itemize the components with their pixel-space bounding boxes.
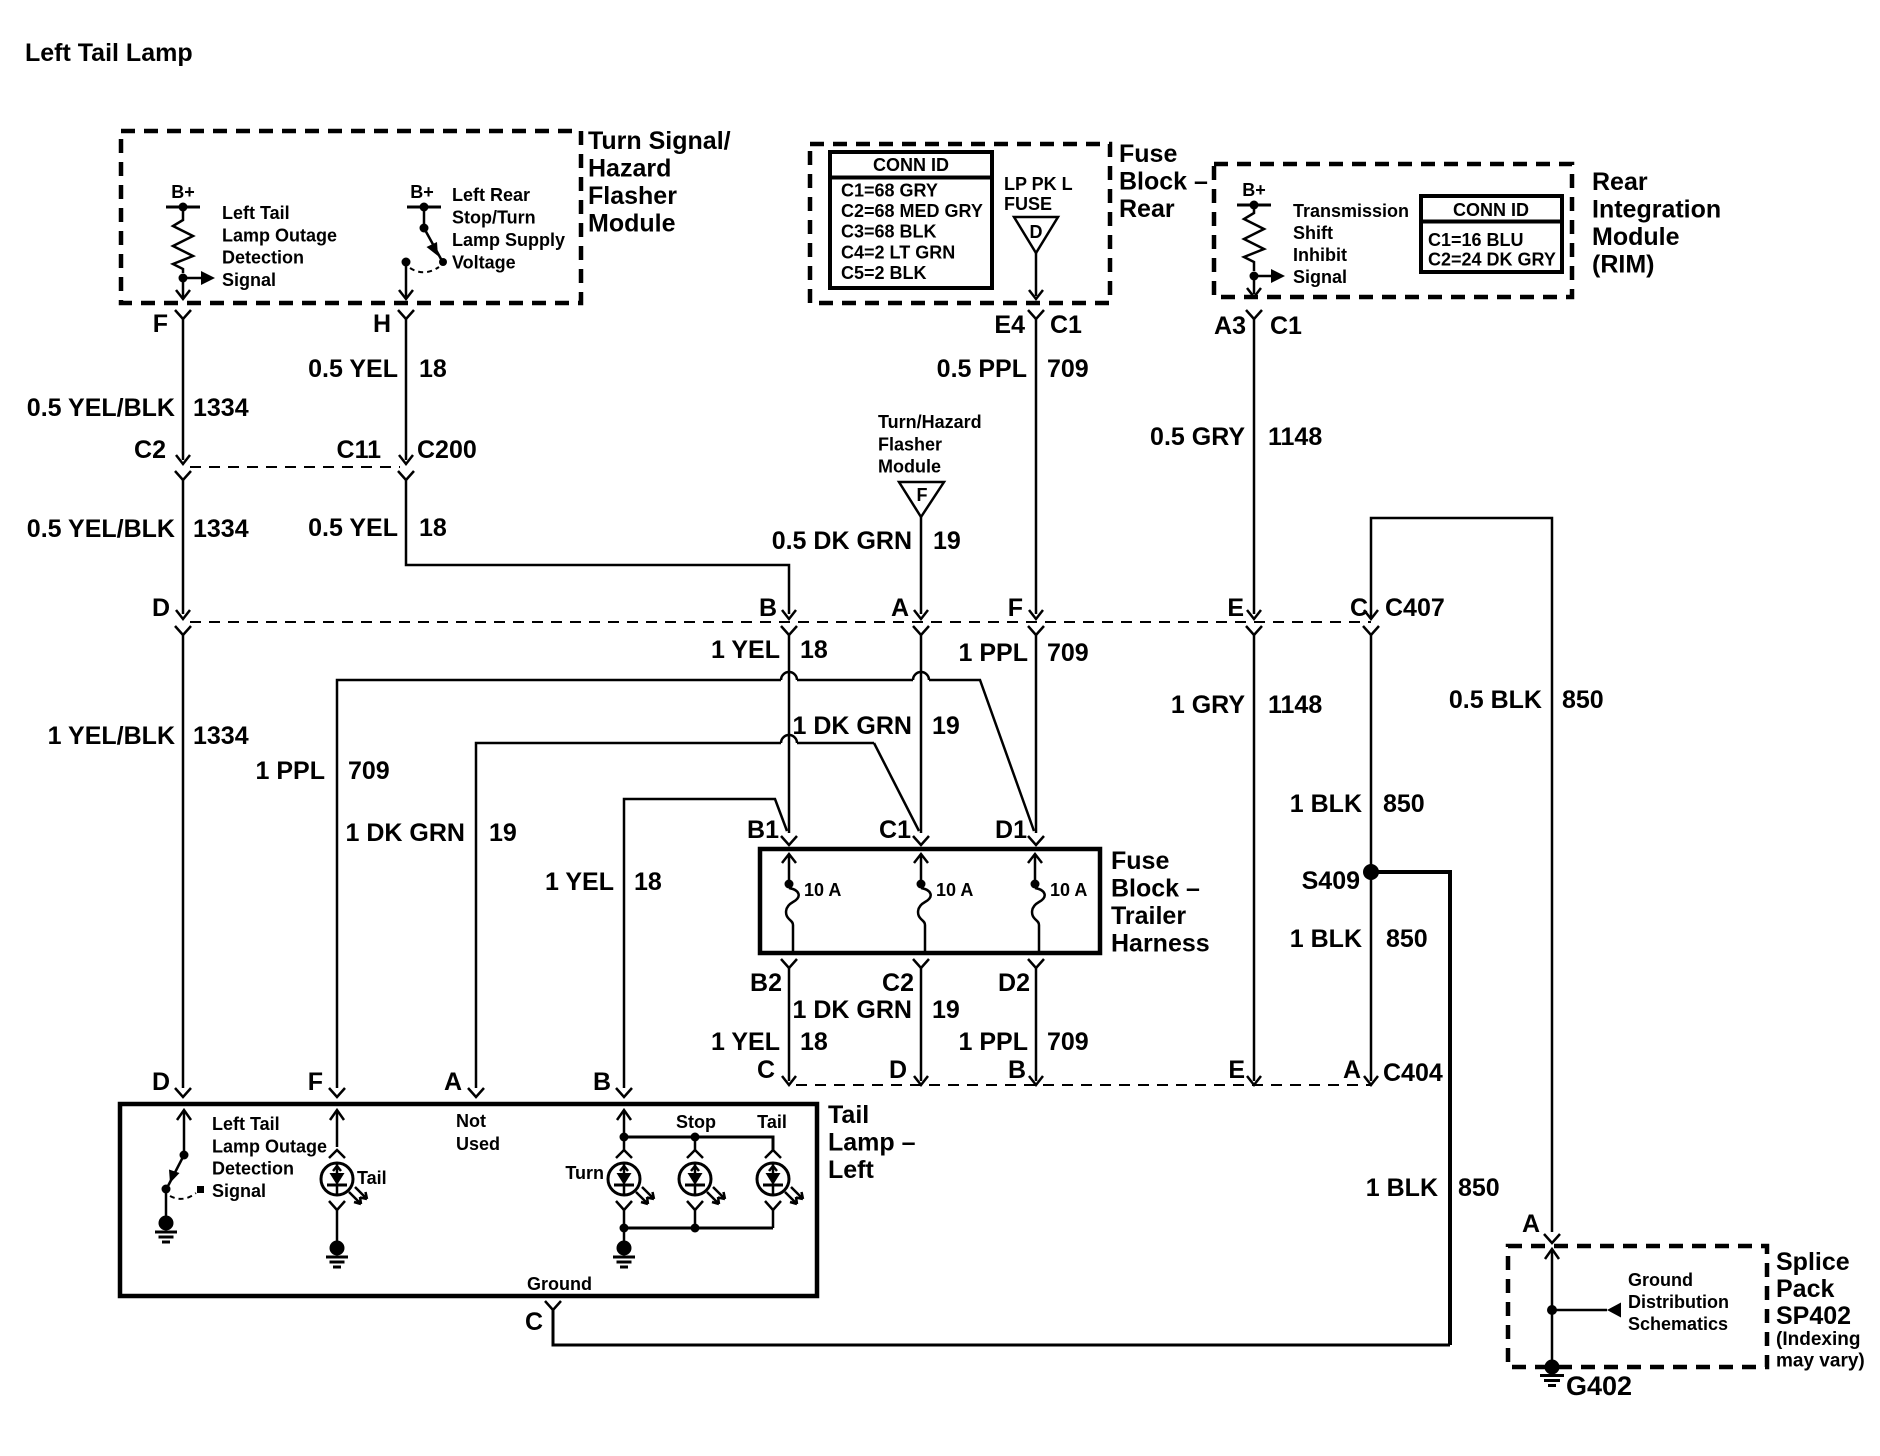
label: 1 BLK 850 (below S409) xyxy=(1290,925,1428,953)
node: splice junction xyxy=(1547,1305,1557,1315)
svg-text:B: B xyxy=(593,1068,611,1096)
wire: 1 YEL 18 branch from fuse B1 over to tail lamp pin B xyxy=(624,799,787,1088)
svg-text:LP PK L: LP PK L xyxy=(1004,174,1073,194)
svg-text:C1: C1 xyxy=(879,816,911,844)
node: shift inhibit signal junction xyxy=(1250,272,1259,281)
pin D at C404 xyxy=(889,1056,928,1085)
fuse F1: 10 A (B1-B2) xyxy=(782,854,841,951)
svg-text:D: D xyxy=(1030,222,1043,242)
connector C200 (dashed in-line connector) xyxy=(190,466,400,468)
wire: tail feed (pin F into box) xyxy=(329,1110,345,1158)
arrow: signal output to right xyxy=(183,271,215,285)
wire: outage signal down to pin F xyxy=(176,278,190,299)
wire: 0.5 YEL/BLK 1334 from pin F to C200 xyxy=(182,319,185,460)
svg-text:A: A xyxy=(1343,1056,1361,1084)
label: 0.5 GRY 1148 xyxy=(1150,423,1322,451)
svg-text:850: 850 xyxy=(1562,686,1604,714)
wire: 1 BLK 850 from C407 pin C down to splice S409 xyxy=(1370,635,1373,868)
pin C at C407 and C407 label xyxy=(1350,594,1445,635)
svg-text:1334: 1334 xyxy=(193,515,249,543)
svg-text:C2: C2 xyxy=(134,436,166,464)
pin C2 at C200 xyxy=(134,436,191,480)
svg-text:B+: B+ xyxy=(171,182,195,202)
svg-text:1 PPL: 1 PPL xyxy=(256,757,325,785)
svg-text:19: 19 xyxy=(933,527,961,555)
svg-text:CONN ID: CONN ID xyxy=(873,155,949,175)
label: 0.5 YEL 18 xyxy=(308,355,447,383)
svg-text:C404: C404 xyxy=(1383,1059,1443,1087)
label: 1 PPL 709 (tail feed) xyxy=(256,757,390,785)
connector C407 (dashed in-line connector row) xyxy=(190,621,1371,623)
svg-text:850: 850 xyxy=(1458,1174,1500,1202)
svg-text:10 A: 10 A xyxy=(1050,880,1087,900)
wire: 0.5 BLK 850 from C407 pin C up and over to splice pack SP402 xyxy=(1371,518,1552,1232)
pin C of tail lamp (ground output) xyxy=(525,1301,561,1336)
label: 1 DK GRN 19 (C2) xyxy=(793,996,960,1024)
label: 1 BLK 850 (above S409) xyxy=(1290,790,1425,818)
wire: 1 PPL 709 from C407 pin F down to fuse D1 xyxy=(1035,635,1038,833)
resistor R2: transmission shift inhibit xyxy=(1244,205,1264,271)
label: 1 PPL 709 (below C407 F) xyxy=(959,639,1089,667)
svg-text:1 YEL: 1 YEL xyxy=(711,1028,780,1056)
wire: 1 GRY 1148 from C407 pin E down to C404 pin E xyxy=(1253,635,1256,1081)
splice S409 xyxy=(1302,864,1379,895)
wire: 1 YEL 18 from B2 to C404 pin C xyxy=(788,968,791,1081)
svg-text:1 YEL/BLK: 1 YEL/BLK xyxy=(48,722,175,750)
wire: 0.5 GRY 1148 from A3 to C407 pin E xyxy=(1253,319,1256,614)
svg-text:10 A: 10 A xyxy=(936,880,973,900)
wire: turn/stop/tail feed (pin B into box) xyxy=(617,1110,631,1137)
bus: bottom bulb bus xyxy=(616,1201,781,1233)
pin F of tail lamp xyxy=(308,1068,345,1097)
power B+ (RIM transmission shift inhibit branch) xyxy=(1237,180,1271,210)
arrow: reference to Ground Distribution Schematics xyxy=(1552,1303,1621,1318)
svg-text:1148: 1148 xyxy=(1268,423,1322,451)
label: 0.5 PPL 709 xyxy=(937,355,1089,383)
ground: tail bulb ground xyxy=(326,1201,348,1267)
svg-text:1 PPL: 1 PPL xyxy=(959,639,1028,667)
svg-text:Left Tail Lamp: Left Tail Lamp xyxy=(25,39,193,67)
wire: 1 BLK 850 from S409 down to C404 pin A xyxy=(1370,876,1373,1081)
svg-text:Tail: Tail xyxy=(357,1168,387,1188)
switch SW2: lamp outage detection contact xyxy=(162,1151,189,1194)
svg-text:19: 19 xyxy=(489,819,517,847)
hop: PPL wire over A vertical xyxy=(913,672,929,680)
resistor R1: left tail lamp outage detection xyxy=(173,207,193,273)
power B+ (left rear stop/turn branch) xyxy=(407,182,441,212)
svg-text:F: F xyxy=(153,310,168,338)
svg-text:1148: 1148 xyxy=(1268,691,1322,719)
fuse F2: 10 A (C1-C2) xyxy=(914,854,973,951)
svg-text:1 DK GRN: 1 DK GRN xyxy=(346,819,465,847)
ground: outage switch ground xyxy=(155,1189,177,1242)
switch SW1: left rear stop/turn lamp supply xyxy=(420,207,448,266)
svg-text:FUSE: FUSE xyxy=(1004,194,1052,214)
label: 1 YEL 18 (below C407 B) xyxy=(711,636,828,664)
wire: 0.5 DK GRN 19 from triangle F to C407 pin A xyxy=(920,517,923,614)
pin E at C404 xyxy=(1228,1056,1261,1085)
svg-text:1 PPL: 1 PPL xyxy=(959,1028,1028,1056)
label: 0.5 YEL/BLK 1334 xyxy=(27,394,249,422)
pin A at C404 and C404 label xyxy=(1343,1056,1443,1087)
svg-text:1 DK GRN: 1 DK GRN xyxy=(793,996,912,1024)
svg-text:(Indexingmay vary): (Indexingmay vary) xyxy=(1776,1329,1865,1372)
connector triangle D (fuse output) xyxy=(1014,217,1058,253)
svg-text:709: 709 xyxy=(1047,1028,1089,1056)
pin C1 of trailer fuse block xyxy=(879,816,929,845)
wire: 1 DK GRN 19 from C2 to C404 pin D xyxy=(920,968,923,1081)
pin D1 of trailer fuse block xyxy=(995,816,1044,845)
svg-text:A: A xyxy=(1522,1210,1540,1238)
label: 0.5 BLK 850 xyxy=(1449,686,1604,714)
pin A at C407 xyxy=(891,594,929,635)
svg-text:1 BLK: 1 BLK xyxy=(1366,1174,1438,1202)
svg-text:0.5 DK GRN: 0.5 DK GRN xyxy=(772,527,912,555)
svg-text:F: F xyxy=(1008,594,1023,622)
svg-text:1334: 1334 xyxy=(193,722,249,750)
svg-text:D1: D1 xyxy=(995,816,1027,844)
svg-text:F: F xyxy=(308,1068,323,1096)
module: Fuse Block - Trailer Harness (solid box) xyxy=(760,849,1100,953)
wire: 1 YEL 18 from C407 pin B down to fuse B1 xyxy=(788,635,791,833)
module: Splice Pack SP402 (dashed box) xyxy=(1508,1246,1767,1367)
svg-text:B1: B1 xyxy=(747,816,779,844)
label: 1 YEL/BLK 1334 xyxy=(48,722,249,750)
pin E4 / C1 of fuse block rear xyxy=(994,310,1082,339)
pin H of U1 xyxy=(373,310,414,338)
pin D of tail lamp xyxy=(152,1068,191,1097)
svg-text:1 GRY: 1 GRY xyxy=(1171,691,1245,719)
wire: 1 DK GRN 19 branch from fuse C1 over to tail lamp pin A xyxy=(476,743,919,1088)
ground G402 xyxy=(1540,1360,1632,1402)
pin B of tail lamp xyxy=(593,1068,632,1097)
svg-text:1 BLK: 1 BLK xyxy=(1290,790,1362,818)
switch SW1 throw contact and dashed link xyxy=(402,258,440,273)
pin E at C407 xyxy=(1227,594,1262,635)
label: 1 DK GRN 19 (tail feed) xyxy=(346,819,517,847)
svg-text:0.5 YEL/BLK: 0.5 YEL/BLK xyxy=(27,394,175,422)
bus: top bulb bus xyxy=(620,1133,774,1151)
fuse F3: 10 A (D1-D2) xyxy=(1028,854,1087,951)
svg-text:C: C xyxy=(1350,594,1368,622)
svg-text:0.5 PPL: 0.5 PPL xyxy=(937,355,1027,383)
svg-text:B+: B+ xyxy=(410,182,434,202)
pin D at C407 xyxy=(152,594,191,635)
label: 0.5 DK GRN 19 xyxy=(772,527,961,555)
svg-text:D: D xyxy=(152,594,170,622)
label: 1 PPL 709 (D2) xyxy=(959,1028,1089,1056)
svg-text:19: 19 xyxy=(932,712,960,740)
svg-text:18: 18 xyxy=(634,868,662,896)
label: 1 GRY 1148 xyxy=(1171,691,1322,719)
svg-text:18: 18 xyxy=(800,1028,828,1056)
svg-text:A: A xyxy=(891,594,909,622)
svg-text:C2: C2 xyxy=(882,969,914,997)
svg-text:F: F xyxy=(917,485,928,505)
connector C404 (dashed in-line connector row) xyxy=(796,1084,1371,1086)
pin B1 of trailer fuse block xyxy=(747,816,797,845)
svg-text:1 YEL: 1 YEL xyxy=(711,636,780,664)
label: 0.5 YEL 18 (second) xyxy=(308,514,447,542)
svg-text:D2: D2 xyxy=(998,969,1030,997)
connector triangle F (turn/hazard flasher feed) xyxy=(899,482,944,517)
arrow: signal output to right xyxy=(1254,269,1285,283)
svg-text:D: D xyxy=(152,1068,170,1096)
svg-text:E: E xyxy=(1227,594,1244,622)
svg-text:H: H xyxy=(373,310,391,338)
svg-text:1334: 1334 xyxy=(193,394,249,422)
switch SW2 throw contact and dashed link xyxy=(170,1186,204,1199)
svg-text:10 A: 10 A xyxy=(804,880,841,900)
pin B at C407 xyxy=(759,594,797,635)
svg-text:1 DK GRN: 1 DK GRN xyxy=(793,712,912,740)
svg-text:0.5 YEL: 0.5 YEL xyxy=(308,514,398,542)
wire: ground bus from tail lamp pin C to S409 branch xyxy=(553,1310,1450,1345)
svg-text:S409: S409 xyxy=(1302,867,1360,895)
wire: 1 DK GRN 19 from C407 pin A down to fuse C1 xyxy=(920,635,923,833)
power B+ (left tail lamp outage branch) xyxy=(166,182,200,212)
wire: 1 PPL 709 branch from fuse D1 over to tail lamp pin F xyxy=(337,680,1034,1088)
bulb L2: Turn bulb xyxy=(608,1150,654,1204)
hop: PPL wire over B vertical xyxy=(781,672,797,680)
module: Rear Integration Module RIM (dashed box) xyxy=(1214,164,1572,297)
svg-text:0.5 BLK: 0.5 BLK xyxy=(1449,686,1542,714)
wire: 1 YEL/BLK 1334 from C407 pin D down to tail lamp pin D xyxy=(182,635,185,1088)
wire: fuse D output down to module edge xyxy=(1029,253,1043,299)
bulb L1: Tail lamp bulb xyxy=(321,1163,387,1204)
svg-text:18: 18 xyxy=(419,355,447,383)
svg-text:850: 850 xyxy=(1386,925,1428,953)
svg-text:E4: E4 xyxy=(994,311,1025,339)
wire: 0.5 YEL 18 from pin H to C200 xyxy=(405,319,408,460)
pin A of SP402 xyxy=(1522,1210,1560,1243)
label: 1 BLK 850 (ground branch) xyxy=(1366,1174,1500,1202)
pin A of tail lamp xyxy=(444,1068,484,1097)
svg-text:Stop: Stop xyxy=(676,1112,716,1132)
svg-text:C: C xyxy=(757,1056,775,1084)
module U1: Turn Signal/Hazard Flasher Module (dashed box) xyxy=(121,131,581,303)
wire: 1 BLK 850 branch from S409 to ground bus xyxy=(1375,872,1450,1345)
bulb L4: Tail bulb (second) xyxy=(757,1150,803,1204)
pin B2 of trailer fuse block xyxy=(750,959,797,997)
svg-text:CONN ID: CONN ID xyxy=(1453,200,1529,220)
svg-text:0.5 YEL/BLK: 0.5 YEL/BLK xyxy=(27,515,175,543)
svg-text:B: B xyxy=(759,594,777,622)
svg-text:18: 18 xyxy=(800,636,828,664)
svg-text:C1: C1 xyxy=(1050,311,1082,339)
svg-text:709: 709 xyxy=(1047,639,1089,667)
svg-text:1 YEL: 1 YEL xyxy=(545,868,614,896)
svg-text:C407: C407 xyxy=(1385,594,1445,622)
svg-text:Tail: Tail xyxy=(757,1112,787,1132)
svg-text:B+: B+ xyxy=(1242,180,1266,200)
svg-text:0.5 YEL: 0.5 YEL xyxy=(308,355,398,383)
bulb L3: Stop bulb xyxy=(679,1150,725,1204)
label: 1 DK GRN 19 (below C407 A) xyxy=(793,712,960,740)
wire: 1 PPL 709 from D2 to C404 pin B xyxy=(1035,968,1038,1081)
pin B at C404 xyxy=(1008,1056,1043,1085)
svg-text:C11: C11 xyxy=(337,436,382,464)
wire: 0.5 YEL 18 from C200 over to C407 pin B xyxy=(406,480,789,614)
wire: splice internal lead xyxy=(1545,1249,1559,1360)
pin C at C404 xyxy=(757,1056,796,1085)
hop: DK GRN wire over B vertical xyxy=(781,735,797,743)
svg-text:A: A xyxy=(444,1068,462,1096)
pin F at C407 xyxy=(1008,594,1044,635)
svg-text:709: 709 xyxy=(348,757,390,785)
label: 1 YEL 18 (tail feed) xyxy=(545,868,662,896)
svg-text:Turn: Turn xyxy=(565,1163,604,1183)
svg-text:19: 19 xyxy=(932,996,960,1024)
svg-text:0.5 GRY: 0.5 GRY xyxy=(1150,423,1245,451)
pin D2 of trailer fuse block xyxy=(998,959,1044,997)
wire: shift inhibit down to module edge xyxy=(1247,276,1261,297)
svg-text:C1: C1 xyxy=(1270,312,1302,340)
svg-text:18: 18 xyxy=(419,514,447,542)
svg-text:E: E xyxy=(1228,1056,1245,1084)
svg-text:D: D xyxy=(889,1056,907,1084)
pin C11 / C200 label xyxy=(337,436,477,480)
wire: supply voltage down to pin H xyxy=(399,262,413,299)
ground: turn bulb ground xyxy=(613,1228,635,1267)
pin A3 / C1 of RIM xyxy=(1214,310,1302,340)
svg-text:B2: B2 xyxy=(750,969,782,997)
svg-text:C: C xyxy=(525,1308,543,1336)
node: outage signal junction xyxy=(179,274,188,283)
svg-text:709: 709 xyxy=(1047,355,1089,383)
pin F of U1 xyxy=(153,310,191,338)
svg-text:850: 850 xyxy=(1383,790,1425,818)
module: Tail Lamp - Left (solid box) xyxy=(120,1104,817,1296)
svg-text:C200: C200 xyxy=(417,436,477,464)
pin C2 of trailer fuse block xyxy=(882,959,929,997)
svg-text:B: B xyxy=(1008,1056,1026,1084)
wire: 0.5 YEL/BLK 1334 from C200 to C407 pin D xyxy=(182,480,185,614)
label: 0.5 YEL/BLK 1334 (second) xyxy=(27,515,249,543)
table: CONN ID (RIM) xyxy=(1421,196,1562,272)
label: 1 YEL 18 (B2) xyxy=(711,1028,828,1056)
svg-text:A3: A3 xyxy=(1214,312,1246,340)
table: CONN ID (fuse block rear) xyxy=(830,152,992,288)
module: Fuse Block - Rear (dashed box) xyxy=(810,144,1110,303)
svg-text:G402: G402 xyxy=(1566,1371,1632,1401)
svg-text:Ground: Ground xyxy=(527,1274,592,1294)
svg-text:1 BLK: 1 BLK xyxy=(1290,925,1362,953)
wire: outage detection input (pin D into box) xyxy=(177,1110,191,1151)
wire: 0.5 PPL 709 from E4 to C407 pin F xyxy=(1035,319,1038,614)
